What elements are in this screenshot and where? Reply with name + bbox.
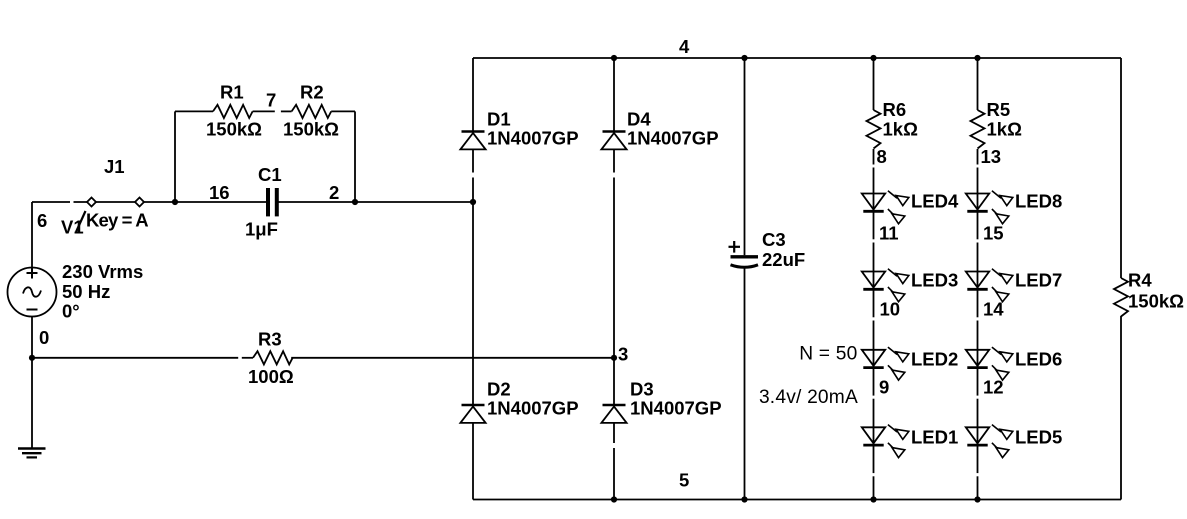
svg-text:100Ω: 100Ω	[248, 366, 294, 387]
svg-text:11: 11	[879, 223, 899, 244]
svg-text:Key = A: Key = A	[86, 210, 148, 231]
svg-text:4: 4	[679, 36, 690, 57]
svg-text:R2: R2	[300, 82, 324, 103]
svg-text:D1: D1	[487, 109, 511, 130]
svg-text:16: 16	[209, 182, 230, 203]
svg-text:13: 13	[981, 146, 1002, 167]
svg-text:LED7: LED7	[1015, 270, 1062, 291]
svg-text:LED8: LED8	[1015, 191, 1062, 212]
svg-text:22uF: 22uF	[762, 249, 805, 270]
svg-text:R3: R3	[258, 329, 282, 350]
svg-text:1kΩ: 1kΩ	[883, 119, 919, 140]
svg-text:LED3: LED3	[911, 270, 958, 291]
svg-text:12: 12	[983, 377, 1004, 398]
svg-text:J1: J1	[104, 156, 125, 177]
svg-text:LED1: LED1	[911, 427, 958, 448]
svg-text:LED4: LED4	[911, 191, 959, 212]
svg-text:150kΩ: 150kΩ	[1128, 291, 1184, 312]
svg-text:230 Vrms: 230 Vrms	[62, 261, 143, 282]
svg-text:LED6: LED6	[1015, 349, 1062, 370]
svg-text:LED5: LED5	[1015, 427, 1062, 448]
svg-text:D4: D4	[627, 109, 651, 130]
svg-text:R4: R4	[1128, 270, 1152, 291]
svg-text:3.4v/ 20mA: 3.4v/ 20mA	[759, 387, 858, 408]
svg-text:V1: V1	[61, 217, 84, 238]
svg-text:5: 5	[679, 470, 689, 491]
svg-text:C1: C1	[258, 164, 282, 185]
svg-text:1N4007GP: 1N4007GP	[487, 128, 579, 149]
svg-text:1N4007GP: 1N4007GP	[487, 398, 579, 419]
svg-text:1μF: 1μF	[245, 219, 278, 240]
svg-text:9: 9	[879, 377, 889, 398]
svg-text:R6: R6	[883, 99, 907, 120]
svg-text:D3: D3	[630, 379, 654, 400]
svg-text:50 Hz: 50 Hz	[62, 281, 110, 302]
svg-text:C3: C3	[762, 229, 786, 250]
svg-text:2: 2	[329, 182, 339, 203]
svg-text:1kΩ: 1kΩ	[987, 119, 1023, 140]
svg-text:150kΩ: 150kΩ	[206, 119, 262, 140]
svg-text:7: 7	[266, 90, 276, 111]
svg-text:1N4007GP: 1N4007GP	[627, 128, 719, 149]
svg-text:1N4007GP: 1N4007GP	[630, 398, 722, 419]
svg-text:R1: R1	[220, 82, 244, 103]
svg-text:0: 0	[39, 327, 49, 348]
svg-text:8: 8	[877, 146, 887, 167]
svg-text:0°: 0°	[62, 301, 80, 322]
svg-text:D2: D2	[487, 379, 511, 400]
svg-text:R5: R5	[987, 99, 1011, 120]
svg-text:3: 3	[618, 344, 628, 365]
svg-text:150kΩ: 150kΩ	[283, 119, 339, 140]
svg-text:LED2: LED2	[911, 349, 958, 370]
svg-text:10: 10	[880, 299, 901, 320]
svg-text:14: 14	[983, 299, 1004, 320]
svg-text:15: 15	[983, 223, 1004, 244]
svg-text:N = 50: N = 50	[799, 343, 857, 364]
svg-text:6: 6	[37, 210, 47, 231]
